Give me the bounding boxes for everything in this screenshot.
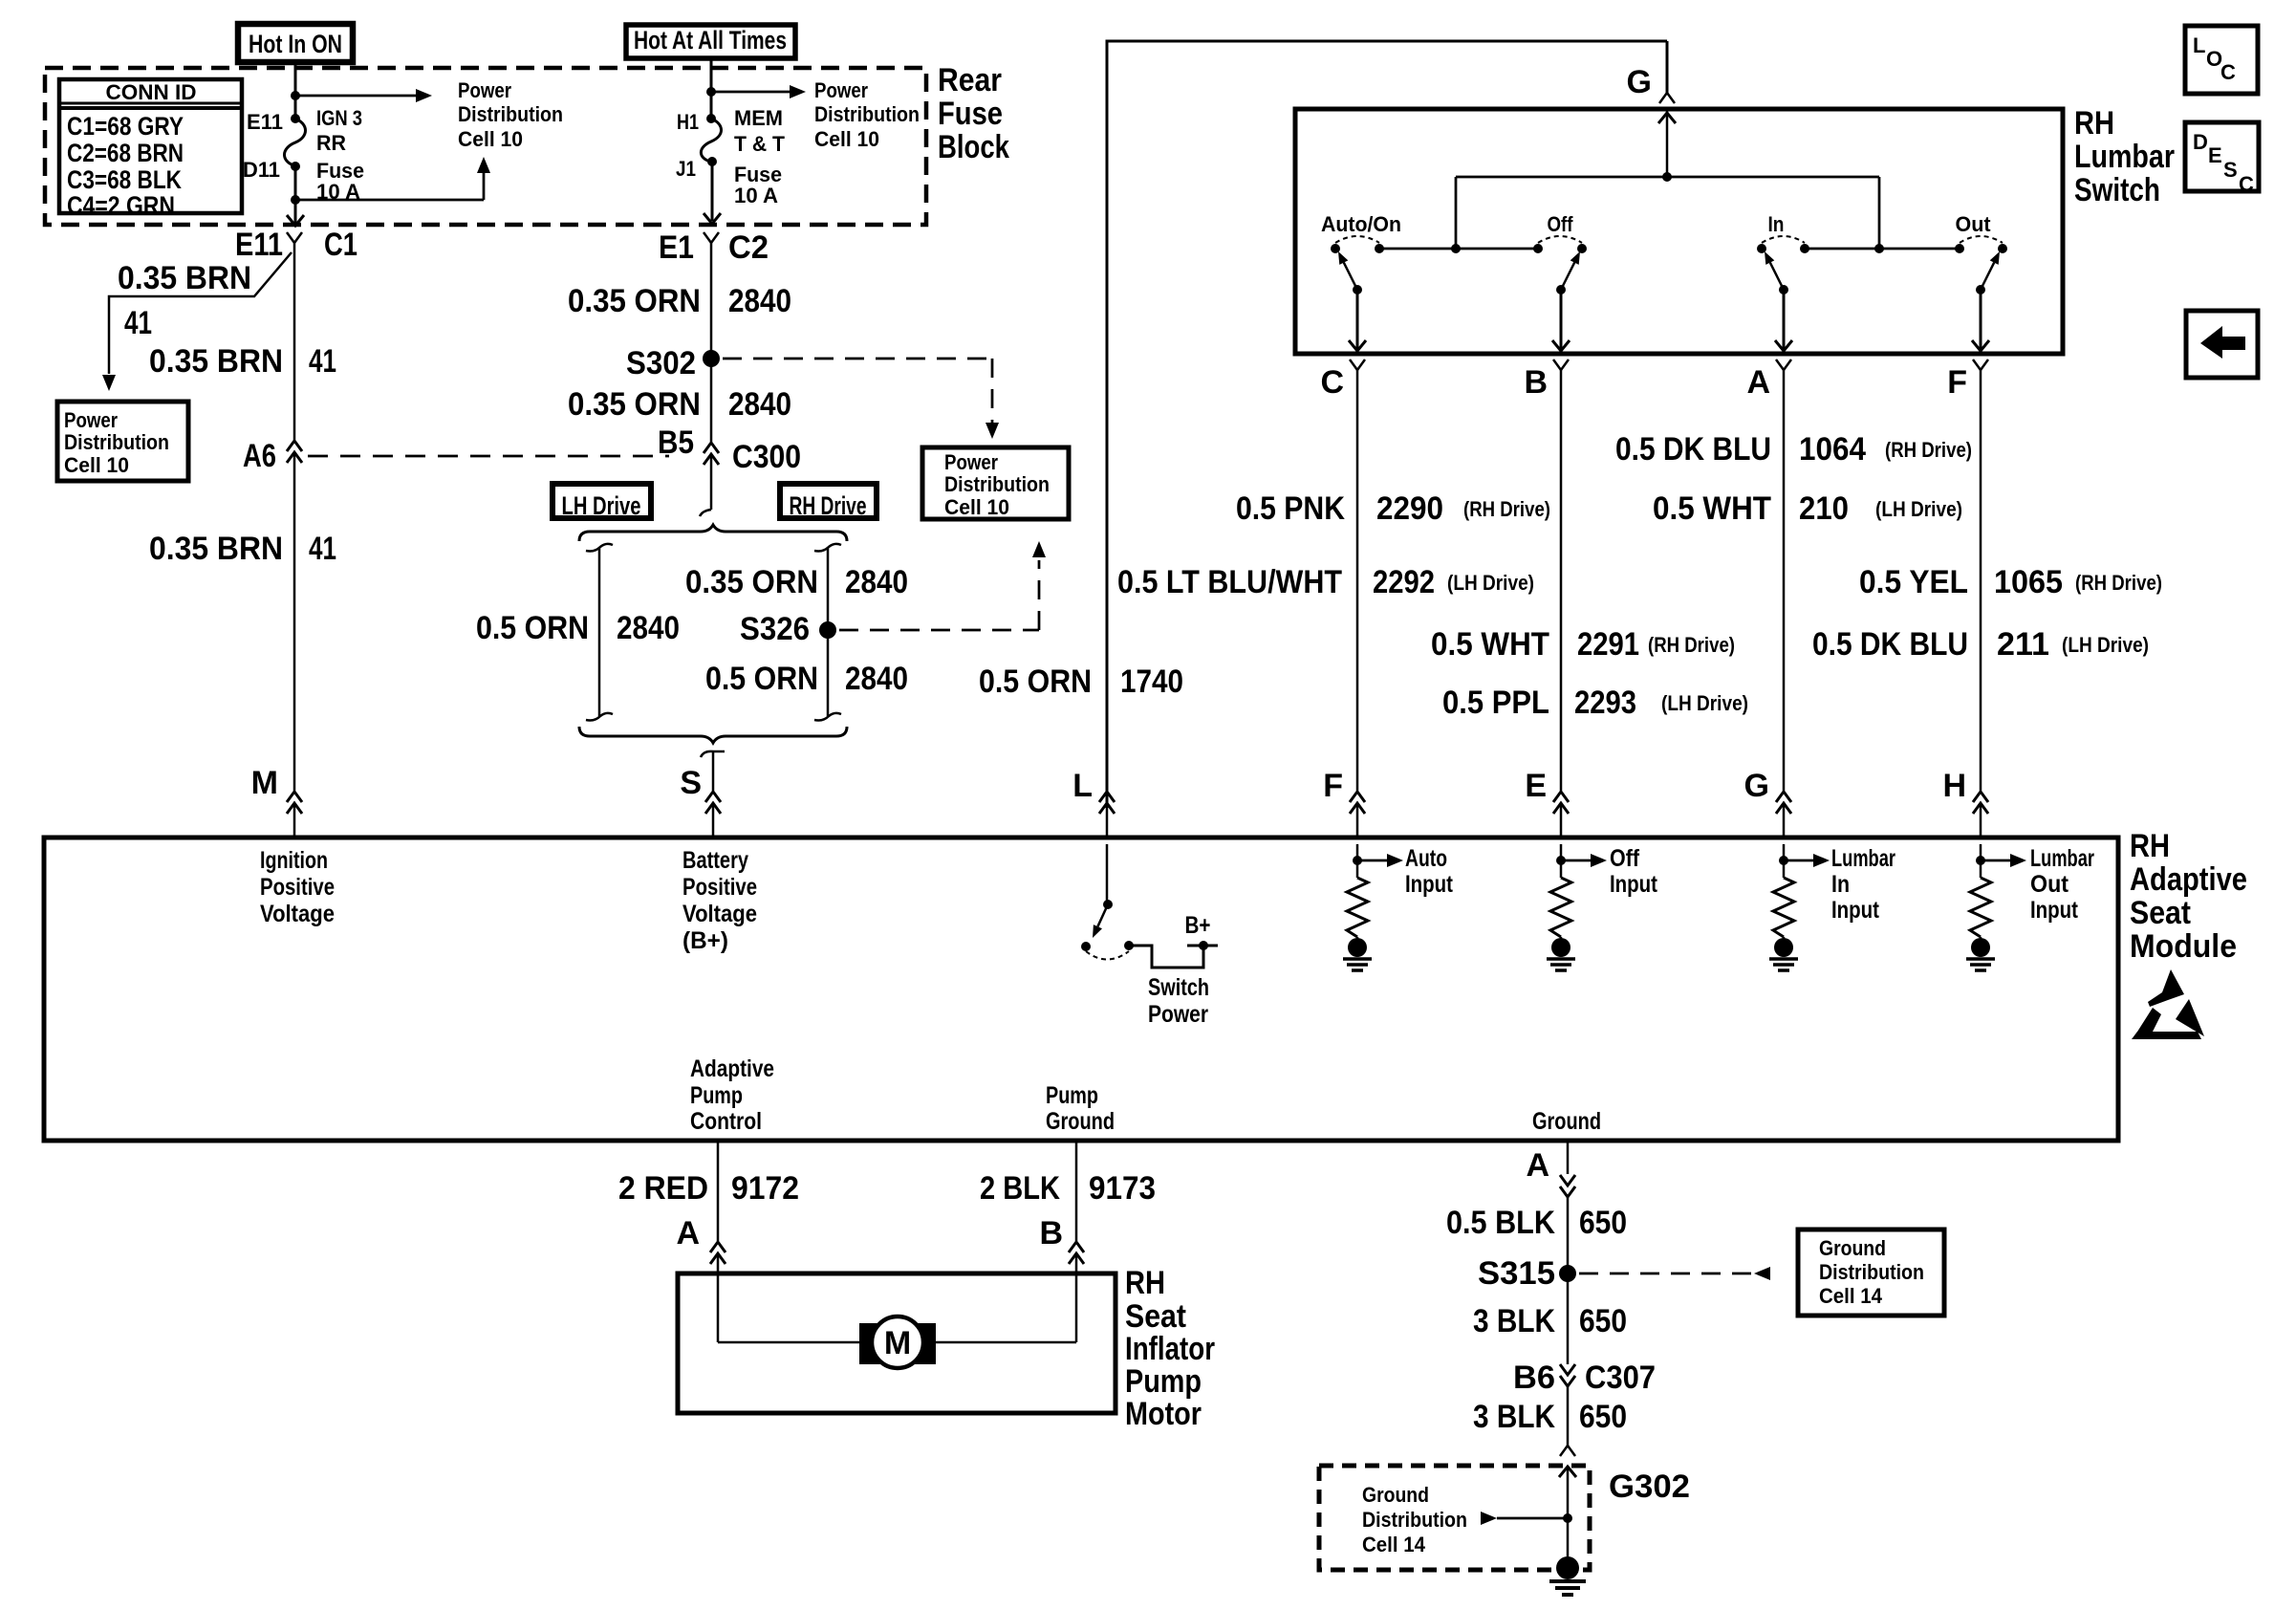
connector ground pin A: [1560, 1175, 1575, 1273]
svg-text:41: 41: [124, 305, 152, 341]
svg-text:D11: D11: [243, 158, 280, 182]
splice S326: [740, 611, 836, 647]
svg-text:0.5 ORN: 0.5 ORN: [705, 661, 818, 697]
svg-text:G: G: [1627, 64, 1652, 100]
svg-text:2840: 2840: [728, 386, 791, 423]
svg-text:RH: RH: [2130, 828, 2170, 864]
svg-text:Battery: Battery: [682, 847, 748, 874]
pin desc Pump Ground: [1046, 1082, 1115, 1135]
label Ground Distribution Cell 14 inside G302: [1362, 1483, 1467, 1556]
wire 0.5 DK BLU 211: [1812, 626, 2149, 663]
LOC nav box: [2185, 26, 2258, 94]
connector at module pin S: [680, 765, 721, 839]
svg-text:A: A: [1746, 364, 1770, 401]
svg-text:A6: A6: [243, 438, 276, 474]
connector module pin F: [1323, 768, 1365, 839]
svg-text:B: B: [1524, 364, 1548, 401]
resistor Auto Input with ground: [1343, 844, 1454, 970]
svg-text:G302: G302: [1609, 1469, 1690, 1505]
svg-text:C1: C1: [324, 227, 357, 263]
wire 0.35 BRN 41 to module pin M: [149, 453, 336, 791]
svg-text:41: 41: [309, 531, 336, 567]
svg-text:(RH Drive): (RH Drive): [1885, 438, 1972, 462]
svg-text:C1=68 GRY: C1=68 GRY: [67, 112, 184, 141]
svg-text:0.5 ORN: 0.5 ORN: [476, 610, 589, 646]
svg-text:Lumbar: Lumbar: [2074, 139, 2175, 175]
svg-text:0.5 BLK: 0.5 BLK: [1446, 1205, 1555, 1241]
svg-text:650: 650: [1579, 1399, 1627, 1435]
svg-text:2840: 2840: [728, 283, 791, 319]
wire 0.35 BRN 41 branch to Power Distribution: [102, 252, 292, 391]
arrow to Power Distribution Cell 10 (MEM feed): [711, 78, 920, 151]
svg-text:2840: 2840: [845, 661, 908, 697]
svg-text:2840: 2840: [617, 610, 680, 646]
svg-text:Lumbar: Lumbar: [1831, 845, 1895, 872]
svg-text:Cell 14: Cell 14: [1819, 1284, 1883, 1308]
wire 0.5 DK BLU 1064: [1615, 431, 1972, 468]
svg-text:Positive: Positive: [682, 874, 757, 901]
svg-text:Inflator: Inflator: [1125, 1331, 1215, 1367]
svg-text:Out: Out: [1956, 212, 1992, 236]
splice S302: [626, 345, 720, 381]
svg-text:C2=68 BRN: C2=68 BRN: [67, 139, 184, 167]
wire 0.5 WHT 210: [1653, 490, 1962, 527]
wire ground pin A down: [1526, 1139, 1568, 1184]
fuse MEM T &amp; T Fuse 10 A: [676, 106, 786, 207]
connector at module pin M: [251, 765, 302, 839]
svg-text:CONN ID: CONN ID: [106, 80, 197, 104]
svg-text:Hot At All Times: Hot At All Times: [634, 26, 787, 54]
svg-text:In: In: [1768, 212, 1785, 236]
svg-text:MEM: MEM: [734, 106, 783, 130]
svg-text:F: F: [1947, 364, 1967, 401]
svg-text:E11: E11: [247, 110, 283, 134]
wire 3 BLK 650 lower: [1473, 1386, 1627, 1446]
LH Drive branch wire 0.5 ORN 2840: [476, 544, 680, 721]
svg-text:0.5 ORN: 0.5 ORN: [979, 664, 1092, 700]
svg-text:(B+): (B+): [682, 927, 728, 954]
svg-text:C: C: [2220, 60, 2236, 84]
wire bus right pair: [1805, 244, 1960, 253]
svg-text:2840: 2840: [845, 564, 908, 600]
svg-text:Motor: Motor: [1125, 1396, 1202, 1432]
svg-text:0.35 BRN: 0.35 BRN: [149, 343, 283, 380]
svg-text:E11: E11: [235, 227, 283, 263]
svg-text:0.5 WHT: 0.5 WHT: [1431, 626, 1549, 663]
flag Hot In ON: [238, 24, 353, 62]
label RH Adaptive Seat Module: [2130, 828, 2247, 965]
flag LH Drive: [552, 484, 651, 520]
wire D11 down and branch arrow up to Cell 10: [291, 157, 490, 223]
svg-text:Positive: Positive: [260, 874, 335, 901]
svg-text:Ground: Ground: [1532, 1108, 1601, 1135]
connector module pin G: [1744, 768, 1791, 839]
wire to module pin S: [701, 751, 725, 791]
svg-text:650: 650: [1579, 1303, 1627, 1339]
svg-text:Voltage: Voltage: [682, 901, 757, 927]
rear fuse block dashed box: [45, 68, 926, 225]
wire 2 BLK 9173: [980, 1139, 1156, 1241]
svg-text:Cell 10: Cell 10: [814, 127, 879, 151]
dashed tie A6 to C300: [308, 455, 669, 458]
svg-text:Power: Power: [458, 78, 511, 102]
svg-text:C: C: [2239, 172, 2254, 196]
svg-text:IGN 3: IGN 3: [316, 106, 362, 130]
connector switch pin A: [1746, 359, 1791, 791]
wire from Hot At All Times to fuse H1: [706, 59, 716, 119]
CONN ID table: [59, 79, 242, 220]
svg-text:0.5 YEL: 0.5 YEL: [1859, 564, 1968, 600]
wire 2 RED 9172: [618, 1139, 799, 1241]
svg-text:Switch: Switch: [1148, 974, 1209, 1001]
svg-text:C2: C2: [728, 229, 769, 266]
svg-text:3 BLK: 3 BLK: [1473, 1303, 1555, 1339]
svg-text:0.5 PNK: 0.5 PNK: [1236, 490, 1345, 527]
svg-text:Power: Power: [814, 78, 868, 102]
svg-text:Input: Input: [1610, 871, 1658, 898]
resistor Lumbar Out Input with ground: [1966, 844, 2094, 970]
svg-text:Cell 10: Cell 10: [458, 127, 523, 151]
wire bus left pair: [1379, 244, 1538, 253]
svg-text:Rear: Rear: [938, 62, 1002, 98]
svg-text:Cell 10: Cell 10: [944, 495, 1009, 519]
svg-text:210: 210: [1799, 490, 1849, 527]
ground G302: [1549, 1467, 1586, 1595]
svg-text:0.5 DK BLU: 0.5 DK BLU: [1615, 431, 1771, 468]
svg-text:0.5 DK BLU: 0.5 DK BLU: [1812, 626, 1968, 663]
resistor Off Input with ground: [1547, 844, 1658, 970]
wire 0.5 PPL 2293: [1442, 685, 1748, 721]
svg-text:Ground: Ground: [1046, 1108, 1115, 1135]
svg-text:2 BLK: 2 BLK: [980, 1170, 1060, 1207]
label RH Seat Inflator Pump Motor: [1125, 1265, 1215, 1432]
svg-text:Auto: Auto: [1405, 845, 1447, 872]
svg-text:RR: RR: [316, 131, 346, 155]
connector module pin E: [1525, 768, 1569, 839]
svg-text:(LH Drive): (LH Drive): [1661, 691, 1748, 715]
dashed ref from S302 to Power Distribution Cell 10: [723, 359, 999, 439]
svg-text:S315: S315: [1478, 1255, 1555, 1292]
svg-text:0.35 ORN: 0.35 ORN: [685, 564, 818, 600]
svg-text:0.35 BRN: 0.35 BRN: [118, 260, 251, 296]
svg-text:Pump: Pump: [1046, 1082, 1098, 1109]
svg-text:L: L: [1072, 768, 1093, 804]
svg-text:Distribution: Distribution: [1819, 1260, 1924, 1284]
svg-text:C4=2 GRN: C4=2 GRN: [67, 191, 175, 220]
svg-text:2290: 2290: [1376, 490, 1443, 527]
svg-text:LH Drive: LH Drive: [562, 491, 641, 520]
svg-text:2292: 2292: [1373, 564, 1435, 600]
svg-text:(RH Drive): (RH Drive): [1648, 633, 1735, 657]
DESC nav box: [2185, 122, 2259, 196]
flag Hot At All Times: [626, 25, 795, 58]
svg-text:Input: Input: [1831, 897, 1880, 924]
svg-text:B5: B5: [658, 424, 694, 461]
svg-text:(LH Drive): (LH Drive): [1447, 571, 1534, 595]
svg-text:H: H: [1942, 768, 1966, 804]
wire 0.35 BRN 41 (ignition feed): [149, 243, 336, 440]
svg-text:Adaptive: Adaptive: [2130, 861, 2247, 898]
svg-text:Fuse: Fuse: [938, 96, 1003, 132]
svg-text:2293: 2293: [1574, 685, 1636, 721]
svg-text:(RH Drive): (RH Drive): [2075, 571, 2162, 595]
connector switch pin C: [1320, 359, 1365, 791]
wire 0.5 LT BLU/WHT 2292: [1117, 564, 1534, 600]
RH Seat Inflator Pump Motor box: [678, 1273, 1116, 1413]
svg-text:C307: C307: [1585, 1360, 1656, 1396]
svg-text:9172: 9172: [731, 1170, 799, 1207]
svg-text:1065: 1065: [1994, 564, 2063, 600]
svg-text:C: C: [1320, 364, 1344, 401]
wire from Hot In ON to fuse E11: [291, 61, 300, 119]
svg-text:RH: RH: [2074, 105, 2114, 141]
svg-text:0.5 LT BLU/WHT: 0.5 LT BLU/WHT: [1117, 564, 1342, 600]
svg-text:Cell 10: Cell 10: [64, 453, 129, 477]
box Power Distribution Cell 10 (right): [922, 447, 1069, 519]
svg-text:Input: Input: [1405, 871, 1454, 898]
resistor Lumbar In Input with ground: [1769, 844, 1895, 970]
svg-text:(LH Drive): (LH Drive): [1875, 497, 1962, 521]
dashed ref S315 to Ground Distribution Cell 14: [1579, 1267, 1770, 1280]
svg-text:S: S: [680, 765, 702, 801]
svg-text:Off: Off: [1610, 845, 1640, 872]
svg-text:0.5 WHT: 0.5 WHT: [1653, 490, 1771, 527]
pin desc Ground: [1532, 1108, 1601, 1135]
connector E11 / C1: [235, 227, 357, 263]
ESD symbol: [2132, 969, 2204, 1039]
fuse IGN 3 RR Fuse 10 A: [243, 106, 364, 204]
svg-text:F: F: [1323, 768, 1343, 804]
svg-text:Switch: Switch: [2074, 172, 2160, 208]
wire 0.35 ORN 2840 lower: [568, 386, 791, 423]
svg-text:211: 211: [1997, 626, 2049, 663]
connector switch pin F: [1947, 359, 1988, 791]
svg-text:Voltage: Voltage: [260, 901, 335, 927]
pin desc Ignition Positive Voltage: [260, 847, 335, 927]
connector pump pin A: [676, 1215, 726, 1342]
svg-text:0.35 ORN: 0.35 ORN: [568, 386, 701, 423]
svg-text:Cell 14: Cell 14: [1362, 1533, 1426, 1556]
arrow into switch from G: [1658, 109, 1676, 177]
wire 0.5 WHT 2291: [1431, 626, 1735, 663]
svg-text:Ground: Ground: [1362, 1483, 1429, 1507]
svg-text:E: E: [2208, 143, 2222, 167]
switch Out: [1955, 212, 2007, 351]
svg-text:B6: B6: [1513, 1360, 1555, 1396]
switch In: [1757, 212, 1809, 351]
switch Auto/On: [1321, 212, 1401, 351]
svg-text:Auto/On: Auto/On: [1321, 212, 1401, 236]
wire 0.5 ORN 1740: [979, 664, 1183, 700]
wire 0.5 YEL 1065: [1859, 564, 2162, 600]
connector at G302: [1560, 1446, 1690, 1505]
svg-text:S302: S302: [626, 345, 696, 381]
svg-text:0.5 PPL: 0.5 PPL: [1442, 685, 1549, 721]
svg-text:A: A: [1526, 1147, 1549, 1184]
svg-text:A: A: [676, 1215, 700, 1251]
svg-text:(LH Drive): (LH Drive): [2062, 633, 2149, 657]
svg-text:9173: 9173: [1089, 1170, 1156, 1207]
svg-text:S: S: [2223, 158, 2238, 182]
svg-text:B+: B+: [1185, 912, 1211, 939]
box Ground Distribution Cell 14: [1798, 1229, 1944, 1316]
internal switch power relay contact: [1081, 844, 1218, 1028]
svg-text:0.35 BRN: 0.35 BRN: [149, 531, 283, 567]
svg-text:E: E: [1525, 768, 1547, 804]
svg-text:Distribution: Distribution: [814, 102, 920, 126]
motor M: [718, 1316, 1076, 1368]
svg-text:Power: Power: [64, 408, 118, 432]
arrow to Power Distribution Cell 10 (IGN 3 feed): [295, 78, 563, 151]
connector B6 / C307: [1513, 1360, 1656, 1396]
svg-text:Pump: Pump: [1125, 1363, 1202, 1400]
label Rear Fuse Block: [938, 62, 1009, 165]
pin desc Battery Positive Voltage: [682, 847, 757, 954]
back arrow nav box: [2186, 311, 2258, 378]
G302 dashed box: [1319, 1466, 1590, 1570]
wire 0.5 BLK 650: [1446, 1205, 1627, 1241]
wire J1 down to fuse block exit: [704, 162, 721, 224]
connector module pin H: [1942, 768, 1988, 839]
svg-text:Off: Off: [1548, 212, 1574, 236]
svg-text:S326: S326: [740, 611, 810, 647]
connector switch pin B: [1524, 359, 1569, 791]
switch common bus: [1456, 172, 1879, 249]
svg-text:Distribution: Distribution: [1362, 1508, 1467, 1532]
svg-text:650: 650: [1579, 1205, 1627, 1241]
svg-text:Ground: Ground: [1819, 1236, 1886, 1260]
flag RH Drive: [780, 484, 877, 520]
svg-text:Power: Power: [1148, 1001, 1208, 1028]
svg-text:Power: Power: [944, 450, 998, 474]
svg-text:(RH Drive): (RH Drive): [1463, 497, 1550, 521]
svg-text:2 RED: 2 RED: [618, 1170, 708, 1207]
connector module pin L: [1072, 768, 1115, 839]
svg-text:J1: J1: [676, 157, 696, 181]
svg-text:E1: E1: [659, 229, 694, 266]
svg-text:10 A: 10 A: [734, 184, 778, 207]
svg-text:Distribution: Distribution: [458, 102, 563, 126]
svg-text:L: L: [2193, 33, 2205, 57]
svg-text:Block: Block: [938, 129, 1009, 165]
svg-text:M: M: [251, 765, 278, 801]
brace merge bottom: [579, 727, 847, 743]
brace split top: [579, 525, 847, 541]
svg-text:Lumbar: Lumbar: [2030, 845, 2094, 872]
svg-text:Control: Control: [690, 1108, 762, 1135]
svg-text:C3=68 BLK: C3=68 BLK: [67, 165, 182, 194]
dashed ref from S326 to Power Distribution Cell 10: [839, 541, 1046, 630]
label RH Lumbar Switch: [2074, 105, 2175, 208]
RH Adaptive Seat Module box: [44, 838, 2118, 1141]
connector G at switch: [1627, 41, 1675, 103]
wire switch power feed top run: [1107, 41, 1667, 808]
RH Drive branch wire with S326: [685, 544, 908, 721]
svg-text:G: G: [1744, 768, 1769, 804]
svg-text:Adaptive: Adaptive: [690, 1055, 774, 1082]
svg-text:Distribution: Distribution: [64, 430, 169, 454]
svg-text:Seat: Seat: [2130, 895, 2191, 931]
wire 3 BLK 650 upper: [1473, 1273, 1627, 1364]
connector E1 / C2: [659, 229, 769, 266]
svg-text:Seat: Seat: [1125, 1298, 1186, 1335]
svg-text:1740: 1740: [1120, 664, 1183, 700]
svg-text:D: D: [2193, 130, 2208, 154]
svg-text:Module: Module: [2130, 928, 2237, 965]
svg-text:0.35 ORN: 0.35 ORN: [568, 283, 701, 319]
svg-text:Distribution: Distribution: [944, 472, 1050, 496]
switch Off: [1533, 212, 1587, 351]
pin desc Adaptive Pump Control: [690, 1055, 774, 1135]
RH Lumbar Switch box: [1295, 109, 2063, 354]
svg-text:RH Drive: RH Drive: [790, 491, 867, 520]
wire below C300 with end hook: [700, 455, 711, 516]
splice S315: [1478, 1255, 1576, 1292]
arrow into ground wire: [1481, 1512, 1572, 1525]
open arrow at fuse block exit (left): [287, 215, 304, 226]
svg-text:In: In: [1831, 871, 1850, 898]
svg-text:2291: 2291: [1577, 626, 1639, 663]
box Power Distribution Cell 10 (left): [57, 402, 188, 481]
svg-text:Hot In ON: Hot In ON: [249, 30, 342, 58]
svg-text:RH: RH: [1125, 1265, 1165, 1301]
svg-text:Pump: Pump: [690, 1082, 743, 1109]
svg-text:Ignition: Ignition: [260, 847, 328, 874]
connector A6 in-line: [243, 438, 302, 474]
connector B5 / C300: [658, 424, 801, 475]
svg-text:41: 41: [309, 343, 336, 380]
svg-text:Input: Input: [2030, 897, 2079, 924]
svg-text:C300: C300: [732, 439, 801, 475]
svg-text:3 BLK: 3 BLK: [1473, 1399, 1555, 1435]
wire 0.35 ORN 2840 upper: [568, 243, 791, 442]
connector pump pin B: [1039, 1215, 1084, 1342]
svg-text:M: M: [884, 1325, 911, 1361]
svg-text:H1: H1: [677, 110, 699, 134]
wire 0.5 PNK 2290: [1236, 490, 1550, 527]
svg-text:B: B: [1039, 1215, 1063, 1251]
svg-text:1064: 1064: [1799, 431, 1866, 468]
svg-text:Out: Out: [2030, 871, 2069, 898]
svg-text:T & T: T & T: [734, 132, 786, 156]
